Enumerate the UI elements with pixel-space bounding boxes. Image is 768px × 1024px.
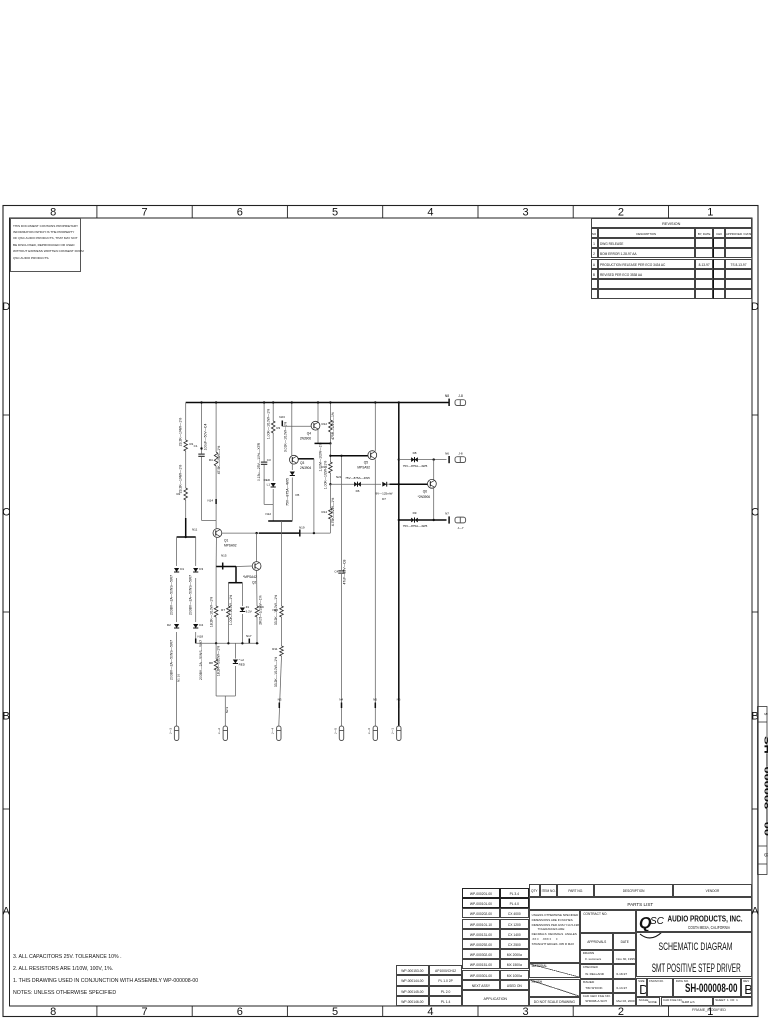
- svg-text:33.2K—1/10W—1%: 33.2K—1/10W—1%: [274, 595, 278, 625]
- transistor Q3 2N3904: [290, 455, 312, 470]
- svg-text:N23: N23: [279, 415, 285, 419]
- svg-text:C1: C1: [194, 444, 198, 448]
- node N17: [246, 634, 252, 643]
- transistor Q5 MPSA92: [357, 451, 376, 470]
- svg-text:B: B: [763, 853, 768, 857]
- node N11: [177, 528, 198, 539]
- svg-text:R11: R11: [272, 647, 278, 651]
- resistor R15: [321, 461, 332, 489]
- zener D5: [285, 464, 299, 521]
- node N8 pin to J-8: [445, 394, 463, 406]
- svg-text:C3: C3: [267, 458, 271, 462]
- svg-text:C4: C4: [334, 570, 338, 574]
- svg-text:N4: N4: [339, 698, 343, 702]
- svg-text:J-8: J-8: [458, 394, 463, 398]
- svg-text:J—2: J—2: [217, 728, 221, 735]
- svg-text:R14: R14: [321, 510, 327, 514]
- svg-text:B: B: [3, 711, 10, 723]
- svg-text:100uF—50V—C4: 100uF—50V—C4: [203, 424, 207, 451]
- svg-text:N14: N14: [207, 499, 213, 503]
- wire top supply rail N8: [186, 402, 449, 404]
- wire to Q2: [228, 566, 252, 583]
- node N15: [216, 554, 236, 570]
- node N5 label: [373, 698, 377, 709]
- capacitor C3: [257, 442, 271, 481]
- svg-text:C: C: [751, 507, 759, 519]
- wire C3-L1 bracket: [264, 504, 273, 521]
- node N4 label: [339, 698, 343, 709]
- svg-text:8: 8: [50, 1006, 56, 1018]
- wire branch R1: [185, 403, 187, 538]
- svg-text:D6: D6: [356, 489, 360, 493]
- svg-text:47.5K—1/4W—1%: 47.5K—1/4W—1%: [217, 446, 221, 474]
- wire branch C1: [200, 401, 202, 520]
- svg-text:475R—1/2W—1%: 475R—1/2W—1%: [331, 412, 335, 440]
- wire Q5 base: [331, 455, 368, 457]
- svg-text:6: 6: [237, 1006, 243, 1018]
- node N2 label: [225, 707, 229, 714]
- svg-text:75V—875A—4W5: 75V—875A—4W5: [403, 524, 428, 528]
- wire D8 line: [399, 458, 447, 460]
- svg-text:N7: N7: [445, 512, 449, 516]
- svg-text:1.00K—1/10W—1%: 1.00K—1/10W—1%: [266, 409, 270, 439]
- wire box bottom to J-2: [216, 696, 235, 726]
- svg-text:5: 5: [332, 207, 338, 219]
- resistor R2: [176, 465, 187, 500]
- svg-text:A: A: [751, 906, 759, 918]
- node N6 pin to J-8: [445, 451, 463, 463]
- resistor R8: [209, 646, 221, 676]
- svg-text:75V—875A—4W5: 75V—875A—4W5: [345, 476, 370, 480]
- svg-text:RED: RED: [264, 478, 271, 482]
- svg-text:0.15u—25V—10%—X7R: 0.15u—25V—10%—X7R: [257, 442, 261, 481]
- node N7 pin to J-7: [445, 512, 464, 530]
- svg-text:J—6: J—6: [367, 728, 371, 735]
- resistor R12: [321, 412, 335, 440]
- svg-text:7: 7: [142, 207, 148, 219]
- wire Q4 collector/emitter: [315, 401, 331, 443]
- node N21: [336, 475, 342, 479]
- svg-text:4.75K—1/2W—1%: 4.75K—1/2W—1%: [331, 498, 335, 526]
- svg-text:200BV—2A—50NS—5W7: 200BV—2A—50NS—5W7: [199, 640, 203, 680]
- connector J-2: [217, 726, 228, 741]
- svg-text:2: 2: [618, 1006, 624, 1018]
- svg-text:RED: RED: [239, 663, 246, 667]
- resistor R9: [255, 595, 264, 624]
- resistor R11: [272, 646, 283, 687]
- svg-text:200BV—2A—50NS—5W7: 200BV—2A—50NS—5W7: [170, 575, 174, 615]
- svg-text:75V—875A—4W5: 75V—875A—4W5: [285, 478, 289, 506]
- svg-text:N6: N6: [445, 451, 449, 455]
- connector J8 pin 1 (top): [455, 400, 466, 406]
- svg-text:D2: D2: [167, 623, 171, 627]
- fold strip drawing number (right margin): [758, 707, 768, 875]
- diode D2: [167, 623, 179, 680]
- wire N17 rail: [196, 642, 259, 644]
- svg-text:J—3: J—3: [169, 728, 173, 735]
- wire C1-R4 bracket: [202, 520, 217, 528]
- wire D6 D7 line: [330, 483, 398, 485]
- wire Q6 collector/emitter: [433, 460, 435, 520]
- svg-text:4: 4: [427, 207, 433, 219]
- svg-text:J—1: J—1: [391, 728, 395, 735]
- svg-text:3: 3: [523, 1006, 529, 1018]
- svg-text:C: C: [2, 507, 10, 519]
- connector J-7: [455, 517, 466, 523]
- resistor R4: [209, 446, 221, 474]
- wire branch R4: [215, 401, 217, 520]
- svg-text:J—5: J—5: [333, 728, 337, 735]
- svg-text:SH—000008—00: SH—000008—00: [763, 736, 768, 836]
- svg-text:*MPSA42: *MPSA42: [243, 575, 257, 579]
- diode D8: [403, 451, 428, 468]
- svg-text:J—7: J—7: [457, 526, 464, 530]
- svg-text:5: 5: [332, 1006, 338, 1018]
- svg-text:2N3904: 2N3904: [300, 466, 311, 470]
- diode D3: [189, 567, 204, 615]
- node N18: [196, 635, 204, 644]
- resistor value labels mid column: [284, 422, 323, 472]
- wire branch Q5 vertical: [374, 401, 376, 726]
- transistor Q2 MPSA42: [243, 533, 261, 584]
- connector J-6: [367, 726, 378, 741]
- svg-text:J-8: J-8: [458, 451, 462, 455]
- svg-text:N6: N6: [397, 698, 401, 702]
- node N12: [265, 512, 292, 521]
- svg-text:2K05—1/10W—1%: 2K05—1/10W—1%: [259, 595, 263, 624]
- svg-text:200BV—2A—50NS—5W7: 200BV—2A—50NS—5W7: [189, 575, 193, 615]
- svg-text:D1: D1: [180, 567, 184, 571]
- svg-text:N17: N17: [246, 634, 252, 638]
- title block headline texts: [652, 915, 743, 995]
- LED L2 red: [233, 658, 246, 667]
- svg-text:N12: N12: [265, 512, 271, 516]
- svg-text:N19: N19: [299, 526, 305, 530]
- wire Q1 emitter: [215, 537, 217, 566]
- svg-text:N2 9: N2 9: [225, 707, 229, 714]
- zone numbers: [2, 207, 759, 1019]
- svg-text:MPSA92: MPSA92: [224, 544, 237, 548]
- svg-text:* L2: * L2: [239, 658, 245, 662]
- wire R6 branch: [215, 567, 217, 644]
- svg-text:4: 4: [427, 1006, 433, 1018]
- node N1 label: [177, 674, 181, 682]
- connector J-3: [169, 726, 179, 741]
- svg-text:N21: N21: [336, 475, 342, 479]
- svg-text:N8: N8: [445, 394, 449, 398]
- svg-text:D5: D5: [296, 493, 300, 497]
- svg-text:D7: D7: [382, 497, 386, 501]
- transistor Q4 2N3906: [300, 421, 320, 440]
- diode D4: [193, 623, 203, 680]
- resistor R1: [179, 418, 194, 451]
- wire branch R12: [329, 401, 331, 444]
- wire R9 branch: [256, 570, 258, 643]
- svg-text:3: 3: [523, 207, 529, 219]
- wire branch C3: [263, 401, 265, 504]
- resistor R14: [321, 484, 335, 533]
- wire main bus: [398, 401, 400, 726]
- svg-text:1.00K—1/10W—1%: 1.00K—1/10W—1%: [229, 595, 233, 625]
- svg-text:N11: N11: [192, 528, 198, 532]
- zener Z1: [240, 605, 252, 614]
- svg-text:18.2K—1/10W—1%: 18.2K—1/10W—1%: [217, 646, 221, 676]
- connector J-4: [271, 726, 281, 741]
- svg-text:200BV—2A—50NS—5W7: 200BV—2A—50NS—5W7: [170, 640, 174, 680]
- svg-text:Q4: Q4: [307, 432, 311, 436]
- svg-text:N5: N5: [373, 698, 377, 702]
- connector J8 pin 2: [455, 457, 466, 463]
- wire branch C4: [340, 455, 342, 726]
- svg-text:6.2V: 6.2V: [246, 610, 252, 614]
- svg-text:A: A: [3, 906, 11, 918]
- svg-text:Q6: Q6: [423, 490, 427, 494]
- zone tick marks: [3, 206, 758, 1017]
- svg-text:N3: N3: [278, 698, 282, 702]
- diode D6: [345, 476, 370, 493]
- wire Z1 branch: [241, 583, 243, 644]
- svg-text:1.00K—1/2W—1%: 1.00K—1/2W—1%: [324, 461, 328, 489]
- diode D9: [403, 511, 428, 528]
- capacitor C4: [334, 559, 346, 584]
- svg-text:Q3: Q3: [300, 461, 304, 465]
- wire D9 line: [399, 519, 447, 521]
- svg-text:6: 6: [237, 207, 243, 219]
- svg-text:Z1: Z1: [246, 605, 250, 609]
- svg-text:R12: R12: [321, 422, 327, 426]
- capacitor C1: [194, 424, 208, 457]
- node N19: [299, 526, 305, 537]
- svg-text:D9: D9: [413, 511, 417, 515]
- svg-text:D: D: [2, 301, 10, 313]
- svg-text:75V—875A—4W5: 75V—875A—4W5: [403, 464, 428, 468]
- svg-text:L1: L1: [267, 483, 271, 487]
- svg-text:R8: R8: [209, 661, 213, 665]
- svg-text:MPSA92: MPSA92: [357, 466, 370, 470]
- resistor R10: [272, 595, 283, 625]
- svg-text:N15: N15: [221, 554, 227, 558]
- diode D1: [170, 567, 185, 615]
- wire L2 branch: [234, 643, 236, 696]
- transistor Q6 2N3906: [418, 479, 437, 499]
- wire branch Q3: [291, 401, 293, 455]
- svg-text:2N3906: 2N3906: [300, 437, 311, 441]
- wire branch R10 R11: [279, 521, 282, 726]
- diode D7: [375, 482, 392, 501]
- svg-text:N18: N18: [198, 635, 204, 639]
- LED L1 red: [264, 478, 276, 487]
- svg-text:9V—125mW: 9V—125mW: [375, 492, 392, 496]
- svg-text:33.2K—1/10W—1%: 33.2K—1/10W—1%: [274, 657, 278, 687]
- svg-text:R4: R4: [209, 458, 213, 462]
- connector J-1: [391, 726, 401, 741]
- resistor R7: [221, 595, 233, 625]
- svg-text:D8: D8: [413, 451, 417, 455]
- svg-text:18.2K—1/10W—1%: 18.2K—1/10W—1%: [210, 597, 214, 627]
- wire Q6 base: [390, 483, 428, 485]
- resistor R3: [266, 409, 280, 439]
- outer border frame: [3, 206, 758, 1017]
- QSC logo: [639, 915, 665, 938]
- svg-text:R7: R7: [221, 608, 225, 612]
- svg-text:D4: D4: [199, 623, 203, 627]
- svg-text:Q1: Q1: [224, 539, 228, 543]
- svg-text:23.2K—1/4W—1%: 23.2K—1/4W—1%: [179, 465, 183, 493]
- wire branch R3: [272, 401, 274, 504]
- svg-text:R3: R3: [276, 426, 280, 430]
- node N6 label: [397, 698, 401, 709]
- wire D1 chain: [176, 537, 178, 726]
- svg-text:47uF—25V—C8: 47uF—25V—C8: [343, 559, 347, 584]
- resistor R6: [210, 597, 218, 627]
- node N3 label: [278, 698, 282, 709]
- wire D3 chain: [195, 537, 197, 643]
- svg-text:Q2: Q2: [252, 581, 256, 585]
- wire N19 rail: [222, 532, 331, 534]
- wire R8 branch: [215, 643, 217, 696]
- svg-text:N1 16: N1 16: [177, 674, 181, 682]
- node N23 stub: [279, 415, 311, 426]
- svg-text:7: 7: [142, 1006, 148, 1018]
- svg-text:23.2K—1/4W—1%: 23.2K—1/4W—1%: [179, 418, 183, 446]
- svg-text:8: 8: [50, 207, 56, 219]
- connector J-5: [333, 726, 343, 741]
- svg-text:Q5: Q5: [364, 461, 368, 465]
- wire R15: [329, 443, 331, 485]
- svg-text:D3: D3: [199, 567, 203, 571]
- svg-text:*2N3906: *2N3906: [418, 495, 431, 499]
- wire Q3 collector to N19: [298, 459, 314, 533]
- svg-text:D: D: [751, 301, 759, 313]
- svg-text:J—4: J—4: [271, 728, 275, 735]
- transistor Q1 MPSA92: [213, 529, 237, 548]
- wire R7 branch: [227, 583, 229, 644]
- node N14: [207, 499, 216, 505]
